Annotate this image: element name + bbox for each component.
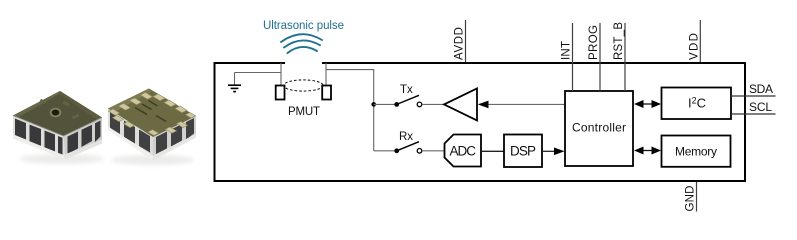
wire DSP to controller with arrow (542, 150, 556, 152)
ASIC boundary box (gap in top edge at PMUT) (215, 63, 746, 181)
ground wire (235, 72, 282, 74)
wire ADC to DSP (481, 150, 504, 152)
svg-text:VDD: VDD (689, 33, 701, 60)
svg-text:AVDD: AVDD (454, 27, 466, 60)
wire controller to amplifier with arrow (485, 103, 565, 105)
pin VDD (699, 20, 701, 62)
SCL line (731, 113, 776, 115)
I2C block (662, 88, 732, 120)
svg-text:PROG: PROG (588, 25, 600, 60)
svg-text:PMUT: PMUT (288, 106, 320, 118)
svg-text:RST_B: RST_B (613, 22, 625, 60)
svg-text:Ultrasonic pulse: Ultrasonic pulse (263, 20, 344, 32)
svg-text:Tx: Tx (400, 84, 413, 96)
wire from top edge to PMUT right electrode (325, 63, 327, 86)
ultrasonic wave arcs (281, 34, 322, 53)
memory block (662, 136, 731, 167)
chip photo left (top view) (13, 91, 102, 159)
pin INT (572, 23, 574, 91)
DSP block (504, 135, 542, 168)
wire Tx switch to amplifier (422, 103, 444, 105)
pin RST_B (624, 23, 626, 91)
Tx switch (394, 95, 422, 107)
chip shadows (20, 154, 104, 164)
pin PROG (599, 23, 601, 91)
wire Rx switch to ADC (422, 150, 445, 152)
junction node (371, 102, 376, 107)
svg-text:Rx: Rx (399, 131, 413, 143)
pin AVDD (465, 20, 467, 62)
svg-text:ADC: ADC (450, 144, 477, 159)
amplifier (Tx driver) (444, 88, 477, 120)
SDA line (731, 95, 776, 97)
PMUT left electrode (276, 86, 285, 100)
svg-text:GND: GND (685, 186, 697, 212)
svg-text:DSP: DSP (510, 144, 536, 159)
wire from top edge to PMUT left electrode (280, 63, 282, 86)
pin GND (696, 182, 698, 212)
PMUT right electrode (322, 86, 331, 100)
Rx switch (394, 142, 422, 154)
svg-text:SDA: SDA (749, 82, 773, 96)
PMUT membrane (dashed ellipse) (284, 80, 324, 91)
svg-text:Controller: Controller (572, 121, 626, 135)
svg-text:I2C: I2C (688, 96, 706, 111)
svg-text:Memory: Memory (675, 145, 717, 159)
double arrow controller to Memory (640, 150, 655, 152)
wire junction to Tx switch (374, 103, 395, 105)
ground (228, 85, 241, 91)
signal wire from right electrode to junction (326, 70, 374, 151)
double arrow controller to I2C (640, 103, 655, 105)
controller block (565, 91, 633, 166)
chip photo right (bottom view) (108, 89, 196, 161)
svg-text:INT: INT (561, 41, 573, 60)
svg-text:SCL: SCL (749, 100, 772, 114)
wire junction to Rx switch (374, 150, 395, 152)
ADC block (445, 135, 482, 167)
